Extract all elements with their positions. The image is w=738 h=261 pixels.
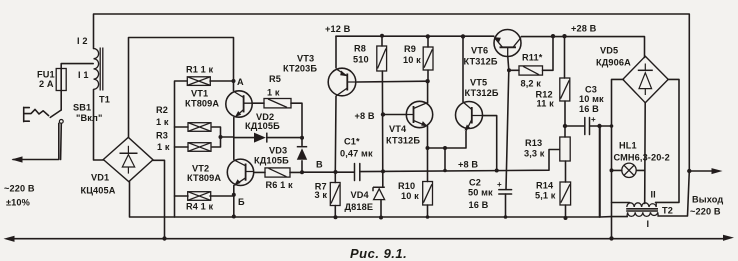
svg-text:Б: Б xyxy=(238,197,245,207)
svg-text:2 А: 2 А xyxy=(39,79,54,89)
svg-text:В: В xyxy=(316,160,323,170)
svg-text:10 к: 10 к xyxy=(403,55,421,65)
svg-text:R5: R5 xyxy=(269,74,281,84)
svg-text:+: + xyxy=(591,115,596,124)
svg-text:Рис. 9.1.: Рис. 9.1. xyxy=(350,246,407,261)
svg-text:16 В: 16 В xyxy=(579,104,599,114)
svg-text:R4 1 к: R4 1 к xyxy=(186,202,214,212)
svg-text:HL1: HL1 xyxy=(619,141,637,151)
svg-text:VT4: VT4 xyxy=(389,124,407,134)
svg-text:10 мк: 10 мк xyxy=(579,94,604,104)
svg-text:R3: R3 xyxy=(156,131,168,141)
svg-text:11 к: 11 к xyxy=(537,99,555,109)
svg-text:±10%: ±10% xyxy=(6,198,30,208)
svg-text:1 к: 1 к xyxy=(156,117,169,127)
svg-text:КЦ405А: КЦ405А xyxy=(81,186,116,196)
svg-text:R8: R8 xyxy=(354,44,366,54)
svg-text:II: II xyxy=(651,190,656,200)
svg-text:50 мк: 50 мк xyxy=(468,188,493,198)
svg-text:510: 510 xyxy=(353,55,369,65)
svg-text:КТ809А: КТ809А xyxy=(185,99,219,109)
svg-text:I 2: I 2 xyxy=(77,36,88,46)
svg-text:~220 В: ~220 В xyxy=(690,207,721,217)
svg-text:С1*: С1* xyxy=(344,137,360,147)
svg-text:I 1: I 1 xyxy=(78,70,89,80)
svg-text:R13: R13 xyxy=(525,138,542,148)
svg-text:VT2: VT2 xyxy=(192,164,209,174)
svg-text:R9: R9 xyxy=(404,44,416,54)
svg-text:1 к: 1 к xyxy=(157,142,170,152)
svg-text:1 к: 1 к xyxy=(267,88,280,98)
svg-text:R11*: R11* xyxy=(522,53,543,63)
svg-text:VT6: VT6 xyxy=(471,46,488,56)
svg-text:~220 В: ~220 В xyxy=(4,184,35,194)
svg-text:Т1: Т1 xyxy=(99,95,110,105)
svg-text:"Вкл": "Вкл" xyxy=(76,113,103,123)
svg-text:R10: R10 xyxy=(398,181,415,191)
svg-text:+28 В: +28 В xyxy=(571,24,597,34)
svg-text:КТ203Б: КТ203Б xyxy=(283,64,317,74)
svg-text:КД906А: КД906А xyxy=(596,58,631,68)
svg-text:VD1: VD1 xyxy=(91,173,109,183)
svg-text:FU1: FU1 xyxy=(37,70,55,80)
svg-text:Д818Е: Д818Е xyxy=(345,202,374,212)
svg-text:0,47 мк: 0,47 мк xyxy=(340,149,373,159)
svg-text:5,1 к: 5,1 к xyxy=(535,191,556,201)
svg-text:+12 В: +12 В xyxy=(325,24,351,34)
svg-text:I: I xyxy=(647,219,650,229)
svg-text:Т2: Т2 xyxy=(662,206,673,216)
svg-text:R2: R2 xyxy=(156,105,168,115)
svg-text:8,2 к: 8,2 к xyxy=(521,79,542,89)
svg-text:R1 1 к: R1 1 к xyxy=(186,65,214,75)
svg-text:R14: R14 xyxy=(536,181,554,191)
svg-text:А: А xyxy=(237,77,244,87)
svg-text:10 к: 10 к xyxy=(401,191,419,201)
svg-text:С2: С2 xyxy=(469,178,481,188)
svg-text:СМН6,3-20-2: СМН6,3-20-2 xyxy=(614,153,670,163)
svg-text:VD3: VD3 xyxy=(269,146,287,156)
svg-text:КД105Б: КД105Б xyxy=(245,121,280,131)
svg-text:КТ312Б: КТ312Б xyxy=(465,88,499,98)
svg-text:16 В: 16 В xyxy=(469,200,489,210)
svg-text:VT3: VT3 xyxy=(297,54,314,64)
svg-text:R6 1 к: R6 1 к xyxy=(266,180,294,190)
svg-text:VT5: VT5 xyxy=(470,78,487,88)
svg-text:3,3 к: 3,3 к xyxy=(524,149,545,159)
svg-text:SB1: SB1 xyxy=(73,103,91,113)
svg-text:3 к: 3 к xyxy=(315,190,328,200)
svg-text:Выход: Выход xyxy=(692,195,723,205)
svg-text:С3: С3 xyxy=(585,85,597,95)
svg-text:VT1: VT1 xyxy=(191,89,208,99)
svg-text:+: + xyxy=(497,180,502,189)
svg-text:КТ312Б: КТ312Б xyxy=(464,57,498,67)
svg-text:КД105Б: КД105Б xyxy=(254,156,289,166)
svg-text:+8 В: +8 В xyxy=(458,160,478,170)
svg-text:VD5: VD5 xyxy=(600,46,618,56)
svg-text:+8 В: +8 В xyxy=(355,111,375,121)
svg-text:КТ312Б: КТ312Б xyxy=(386,136,420,146)
svg-text:КТ809А: КТ809А xyxy=(187,173,221,183)
svg-text:VD4: VD4 xyxy=(351,190,370,200)
